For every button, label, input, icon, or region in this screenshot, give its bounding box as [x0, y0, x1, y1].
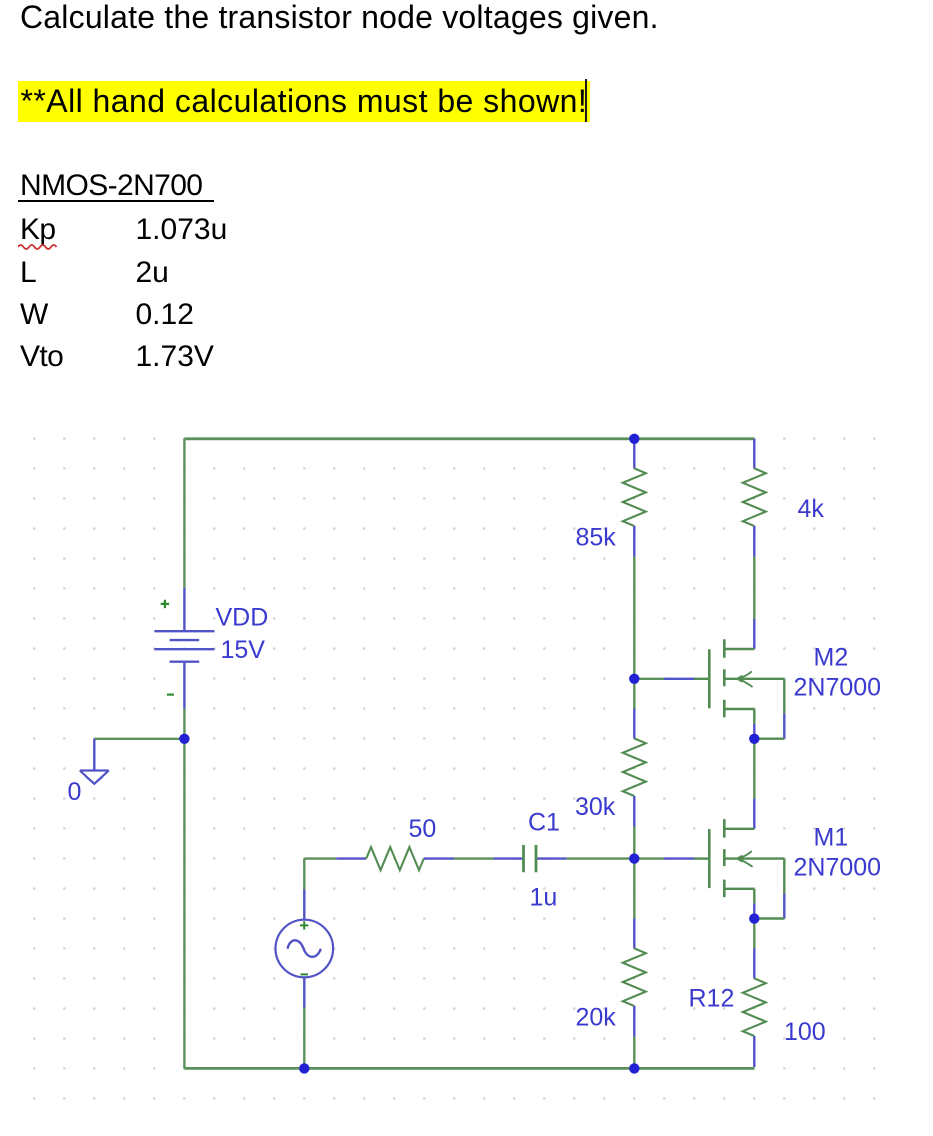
wire node A to 30k — [633, 679, 635, 709]
table row Vto — [20, 342, 63, 372]
bottom rail wire — [184, 1067, 754, 1070]
wire M2 source to M1 drain — [753, 739, 755, 799]
node B (C1/30k/20k/M1 gate) — [629, 853, 639, 863]
transistor M1 2N7000 — [694, 819, 784, 918]
svg-text:2N7000: 2N7000 — [794, 854, 882, 882]
node 20k / bottom rail junction — [629, 1063, 639, 1073]
transistor M2 2N7000 — [694, 639, 784, 738]
wire 85k to node A — [633, 557, 635, 679]
sine source V2 — [276, 889, 334, 1007]
svg-text:0: 0 — [68, 778, 82, 806]
wire 50 to C1 — [454, 857, 493, 859]
svg-text:15V: 15V — [221, 636, 266, 664]
highlighted instruction line — [18, 81, 591, 122]
wire sine bottom to rail — [303, 1008, 305, 1069]
M2 drain pin — [753, 619, 755, 649]
wire C1 to node B — [567, 857, 635, 859]
svg-text:R12: R12 — [689, 985, 735, 1013]
resistor 30k — [623, 709, 646, 827]
M1 drain pin — [753, 799, 755, 829]
node A (85k/30k/M2 gate) — [629, 674, 639, 684]
svg-text:100: 100 — [784, 1018, 826, 1046]
svg-text:M1: M1 — [814, 824, 849, 852]
node battery minus junction — [179, 734, 189, 744]
svg-text:30k: 30k — [575, 793, 616, 821]
wire 20k to bottom rail — [633, 1037, 635, 1069]
wire battery minus to bottom rail — [183, 709, 185, 1069]
node M2 source junction — [749, 734, 759, 744]
svg-text:50: 50 — [409, 815, 437, 843]
M2 gate pin — [664, 678, 694, 680]
node top rail / 85k junction — [629, 434, 639, 444]
resistor R12 100 — [743, 948, 766, 1067]
VDD battery V1 — [154, 588, 214, 709]
wire node B to 20k — [633, 859, 635, 919]
wire sine top to row B — [303, 859, 305, 890]
resistor 4k — [743, 439, 766, 557]
M1 gate pin — [664, 857, 694, 859]
heading NMOS-2N700 — [20, 171, 202, 201]
wire row B left segment — [304, 857, 336, 859]
node M1 source junction — [749, 913, 759, 923]
wire 30k to node B — [633, 827, 635, 859]
heading underline — [18, 200, 214, 202]
ground 0 symbol — [80, 739, 109, 784]
svg-text:M2: M2 — [814, 644, 849, 672]
table row Kp — [20, 215, 56, 245]
svg-text:20k: 20k — [576, 1004, 617, 1032]
top rail wire — [184, 437, 754, 440]
svg-text:1u: 1u — [530, 884, 558, 912]
wire M1 source to R12 — [753, 919, 755, 949]
table row L — [20, 258, 36, 288]
svg-text:85k: 85k — [576, 524, 617, 552]
svg-text:C1: C1 — [528, 809, 560, 837]
grid dots — [20, 425, 888, 1113]
title text line — [20, 2, 659, 32]
table row W — [20, 300, 48, 330]
resistor 85k — [623, 444, 646, 557]
svg-text:4k: 4k — [798, 495, 825, 523]
capacitor C1 1u — [494, 845, 567, 872]
svg-text:VDD: VDD — [216, 604, 269, 632]
wire node B to M1 gate — [634, 857, 664, 859]
svg-text:2N7000: 2N7000 — [794, 674, 882, 702]
wire ground row — [94, 738, 184, 740]
wire 4k to M2 drain — [753, 557, 755, 619]
node sine / bottom rail junction — [299, 1063, 309, 1073]
resistor 50 — [336, 847, 454, 870]
resistor 20k — [623, 919, 646, 1037]
left rail wire (VDD top) — [183, 439, 185, 588]
spellcheck squiggle under Kp — [18, 243, 62, 251]
wire node A to M2 gate — [634, 678, 664, 680]
